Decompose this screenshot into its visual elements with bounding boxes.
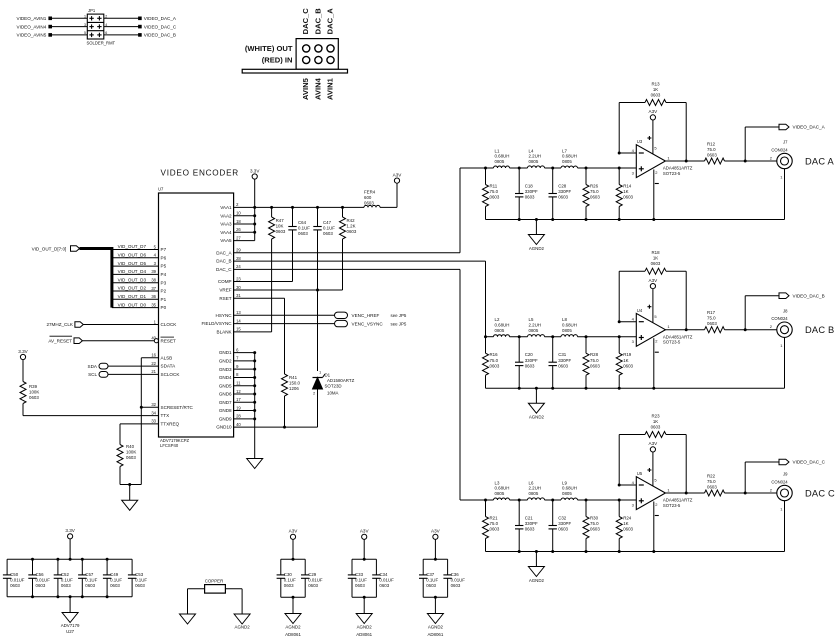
svg-text:P2: P2 xyxy=(161,289,167,294)
svg-text:A3V: A3V xyxy=(649,441,659,446)
svg-text:VID_OUT_D0: VID_OUT_D0 xyxy=(118,302,147,307)
svg-text:U3: U3 xyxy=(637,139,643,144)
svg-text:330PF: 330PF xyxy=(525,521,538,526)
svg-text:P7: P7 xyxy=(161,247,167,252)
svg-text:0603: 0603 xyxy=(590,527,600,532)
wire bus VID_OUT_D xyxy=(80,247,112,308)
svg-text:(WHITE) OUT: (WHITE) OUT xyxy=(245,44,293,53)
wire feedback loop U4 xyxy=(618,271,688,331)
resistor R13 1K feedback xyxy=(645,82,666,106)
svg-text:0.68UH: 0.68UH xyxy=(562,486,577,491)
ground AGND2 under C30 xyxy=(285,597,301,637)
capacitor C56 0.01UF xyxy=(28,559,50,597)
svg-text:COPPER: COPPER xyxy=(205,579,224,584)
svg-text:AD8061: AD8061 xyxy=(427,632,443,637)
wire pin 2 of U5 to rail xyxy=(654,502,659,552)
node VENC_VSYNC terminal xyxy=(335,320,407,326)
ground AGND2 DAC A xyxy=(528,220,544,252)
svg-text:0.01UF: 0.01UF xyxy=(308,577,323,582)
wire output row DAC B xyxy=(665,328,776,331)
wire to VIDEO_DAC_A terminal xyxy=(745,127,779,161)
svg-text:AGND2: AGND2 xyxy=(529,578,545,583)
svg-text:0603: 0603 xyxy=(558,195,568,200)
wire output row DAC A xyxy=(665,160,776,163)
svg-text:0805: 0805 xyxy=(495,159,505,164)
svg-text:28: 28 xyxy=(236,256,241,261)
power 3.3V at R39 xyxy=(20,354,25,359)
svg-text:1K: 1K xyxy=(623,189,628,194)
node VIDEO_DAC_A terminal xyxy=(779,124,826,130)
svg-text:C47: C47 xyxy=(323,220,332,225)
svg-text:0603: 0603 xyxy=(558,527,568,532)
power A3V above C30 xyxy=(290,534,295,539)
svg-text:C56: C56 xyxy=(36,572,45,577)
svg-text:SCLOCK: SCLOCK xyxy=(161,372,181,377)
wire jumper JP1 left and right leads xyxy=(51,17,87,19)
svg-text:0603: 0603 xyxy=(347,229,357,234)
svg-text:0603: 0603 xyxy=(379,583,389,588)
svg-text:0603: 0603 xyxy=(623,527,633,532)
capacitor C30 0.1UF xyxy=(277,559,296,597)
svg-text:R14: R14 xyxy=(623,184,632,189)
svg-text:27MHZ_CLK: 27MHZ_CLK xyxy=(46,322,73,327)
svg-text:R26: R26 xyxy=(590,184,599,189)
inductor L7 0.68UH xyxy=(561,148,578,168)
wire rails C37 C36 xyxy=(423,539,447,598)
svg-text:2.2UH: 2.2UH xyxy=(529,322,541,327)
svg-text:1K: 1K xyxy=(653,87,658,92)
connector J7 CON024 jack DAC A xyxy=(770,140,792,180)
svg-text:0805: 0805 xyxy=(529,328,539,333)
svg-text:ADA4851ARTZ: ADA4851ARTZ xyxy=(663,498,693,503)
svg-text:VAA4: VAA4 xyxy=(220,230,232,235)
wire filter line DAC B xyxy=(484,335,636,338)
svg-text:TTX: TTX xyxy=(161,413,170,418)
svg-text:AGND2: AGND2 xyxy=(357,625,373,630)
svg-text:0603: 0603 xyxy=(490,363,500,368)
power A3V above C37 xyxy=(433,534,438,539)
svg-text:330PF: 330PF xyxy=(558,189,571,194)
node SCL terminal xyxy=(88,372,108,378)
svg-text:SCRESET/RTC: SCRESET/RTC xyxy=(161,405,194,410)
svg-text:R19: R19 xyxy=(623,352,632,357)
svg-text:VAA5: VAA5 xyxy=(220,238,232,243)
diode D1 AD1580ARTZ xyxy=(313,370,355,428)
svg-text:75.0: 75.0 xyxy=(490,521,499,526)
svg-text:31: 31 xyxy=(236,293,241,298)
svg-text:JP1: JP1 xyxy=(88,8,96,13)
svg-text:0603: 0603 xyxy=(284,583,294,588)
svg-text:R40: R40 xyxy=(126,444,135,449)
svg-text:5: 5 xyxy=(84,31,86,35)
svg-text:16: 16 xyxy=(151,353,156,358)
svg-text:VIDEO_DAC_C: VIDEO_DAC_C xyxy=(793,460,826,465)
svg-text:75.0: 75.0 xyxy=(490,358,499,363)
svg-text:LFCSP40: LFCSP40 xyxy=(160,443,179,448)
svg-text:CON024: CON024 xyxy=(771,479,788,484)
svg-text:0.1UF: 0.1UF xyxy=(426,577,438,582)
svg-text:TTXREQ: TTXREQ xyxy=(161,422,180,427)
capacitor C64 0.1UF xyxy=(288,207,310,240)
resistor R21 75.0 xyxy=(483,500,500,552)
svg-text:0603: 0603 xyxy=(623,195,633,200)
svg-text:C28: C28 xyxy=(558,184,567,189)
svg-text:U4: U4 xyxy=(637,308,643,313)
capacitor C50 0.01UF xyxy=(3,559,25,597)
svg-text:2.2UH: 2.2UH xyxy=(529,486,541,491)
resistor R23 1K feedback xyxy=(645,414,666,438)
svg-text:P1: P1 xyxy=(161,297,167,302)
svg-text:A3V: A3V xyxy=(649,109,659,114)
svg-text:L1: L1 xyxy=(495,148,500,153)
svg-text:VIDEO_AVIN5: VIDEO_AVIN5 xyxy=(17,33,47,38)
svg-text:SOT23-5: SOT23-5 xyxy=(663,503,681,508)
svg-text:C49: C49 xyxy=(110,572,119,577)
svg-text:A3V: A3V xyxy=(431,529,441,534)
svg-text:0.01UF: 0.01UF xyxy=(10,577,25,582)
resistor R14 1K xyxy=(616,168,633,220)
svg-text:75.0: 75.0 xyxy=(590,189,599,194)
power 3.3V bypass bank xyxy=(68,534,73,539)
svg-text:0603: 0603 xyxy=(426,583,436,588)
svg-text:C53: C53 xyxy=(135,572,144,577)
resistor R19 1K xyxy=(616,337,633,389)
svg-text:36: 36 xyxy=(151,294,156,299)
node AV_RESET terminal xyxy=(48,336,82,343)
svg-text:L7: L7 xyxy=(562,148,567,153)
ground AGND2 DAC B xyxy=(528,388,544,420)
svg-text:0.68UH: 0.68UH xyxy=(495,322,510,327)
svg-text:AVIN1: AVIN1 xyxy=(325,77,334,100)
jumper JP1 xyxy=(84,8,116,45)
wire C64 to COMP xyxy=(234,240,293,282)
node VIDEO_DAC_B terminal xyxy=(779,293,825,299)
wire VAA pins to rail xyxy=(234,206,257,241)
svg-text:330PF: 330PF xyxy=(558,358,571,363)
svg-text:SOT23-5: SOT23-5 xyxy=(663,340,681,345)
svg-text:0.01UF: 0.01UF xyxy=(36,577,51,582)
svg-text:U27: U27 xyxy=(66,629,75,634)
svg-text:0.68UH: 0.68UH xyxy=(562,322,577,327)
svg-text:GND2: GND2 xyxy=(219,358,232,363)
svg-text:0603: 0603 xyxy=(126,455,136,460)
capacitor C36 0.01UF xyxy=(443,559,465,597)
svg-text:R28: R28 xyxy=(590,352,599,357)
svg-text:AVIN5: AVIN5 xyxy=(301,77,310,100)
svg-text:75.0: 75.0 xyxy=(490,189,499,194)
svg-text:75.0: 75.0 xyxy=(707,147,716,152)
svg-text:J9: J9 xyxy=(783,472,788,477)
svg-text:R11: R11 xyxy=(490,184,498,189)
wire pin 2 of U3 to rail xyxy=(654,170,659,220)
wire to VIDEO_DAC_C terminal xyxy=(745,462,779,493)
svg-text:P4: P4 xyxy=(161,272,167,277)
capacitor C32 330PF xyxy=(549,500,572,552)
resistor R42 1.2K xyxy=(340,207,357,239)
svg-text:AGND2: AGND2 xyxy=(529,415,545,420)
svg-text:GND3: GND3 xyxy=(219,367,232,372)
svg-text:P0: P0 xyxy=(161,305,167,310)
svg-text:1K: 1K xyxy=(653,419,658,424)
capacitor C57 0.1UF xyxy=(78,559,97,597)
svg-text:AD8061: AD8061 xyxy=(356,632,372,637)
power A3V right of FER4 xyxy=(394,178,399,183)
svg-text:40: 40 xyxy=(236,422,241,427)
wire 3.3V to VAA rail xyxy=(255,179,397,209)
svg-text:GND10: GND10 xyxy=(216,425,232,430)
svg-text:27: 27 xyxy=(236,235,241,240)
resistor R16 75.0 xyxy=(483,337,500,389)
svg-text:L4: L4 xyxy=(529,148,534,153)
ground left of copper link xyxy=(180,614,196,624)
svg-text:AD1580ARTZ: AD1580ARTZ xyxy=(327,378,355,383)
svg-text:100K: 100K xyxy=(29,390,39,395)
svg-text:0603: 0603 xyxy=(135,583,145,588)
node VIDEO_DAC right terminals xyxy=(138,16,177,38)
svg-text:AGND2: AGND2 xyxy=(529,246,545,251)
connector J1 audio jack block xyxy=(245,39,338,70)
resistor R40 100K xyxy=(117,443,136,485)
svg-text:L6: L6 xyxy=(529,480,534,485)
wire HSYNC to VENC_HREF xyxy=(234,314,335,316)
svg-text:1K: 1K xyxy=(623,358,628,363)
svg-text:AD8061: AD8061 xyxy=(285,632,301,637)
svg-text:R18: R18 xyxy=(651,250,660,255)
svg-text:30: 30 xyxy=(236,285,241,290)
svg-text:VID_OUT_D6: VID_OUT_D6 xyxy=(118,253,147,258)
svg-text:24: 24 xyxy=(236,264,241,269)
svg-text:C52: C52 xyxy=(61,572,70,577)
svg-text:R13: R13 xyxy=(651,82,660,87)
svg-text:VENC_HREF: VENC_HREF xyxy=(352,313,380,318)
wire bottom rail DAC B xyxy=(486,387,785,390)
inductor L1 0.68UH xyxy=(494,148,510,168)
wire AV_RESET to RESET pin with bubble xyxy=(82,339,158,343)
pin names U7 left side xyxy=(151,244,193,426)
resistor R18 1K feedback xyxy=(645,250,666,274)
svg-text:VID_OUT_D3: VID_OUT_D3 xyxy=(118,277,147,282)
power A3V op-amp U5 xyxy=(650,447,655,452)
svg-text:VENC_VSYNC: VENC_VSYNC xyxy=(352,321,384,326)
node VID_OUT_D[7:0] bus terminal xyxy=(32,246,80,252)
svg-text:C33: C33 xyxy=(355,572,364,577)
wire GND pins to ground rail xyxy=(234,351,318,458)
svg-text:100K: 100K xyxy=(126,450,136,455)
svg-text:10MA: 10MA xyxy=(327,391,339,396)
svg-text:0.01UF: 0.01UF xyxy=(379,577,394,582)
capacitor C33 0.1UF xyxy=(348,559,367,597)
svg-text:VIDEO_AVIN4: VIDEO_AVIN4 xyxy=(17,24,47,29)
svg-text:HSYNC: HSYNC xyxy=(216,313,233,318)
svg-text:R21: R21 xyxy=(490,516,499,521)
svg-text:C30: C30 xyxy=(284,572,293,577)
ground AGND2 under C33 xyxy=(356,597,372,637)
svg-text:6: 6 xyxy=(105,31,107,35)
wire bottom rail DAC C xyxy=(486,550,785,553)
svg-text:C29: C29 xyxy=(308,572,317,577)
op-amp U7 video encoder ADV7179 body xyxy=(158,187,234,448)
ground AGND2 DAC C xyxy=(528,552,544,584)
svg-text:0.68UH: 0.68UH xyxy=(495,486,510,491)
svg-text:DAC A: DAC A xyxy=(805,156,834,166)
svg-text:0.1UF: 0.1UF xyxy=(355,577,367,582)
resistor R26 75.0 xyxy=(583,168,600,220)
svg-text:VIDEO_DAC_B: VIDEO_DAC_B xyxy=(144,33,176,38)
svg-text:0603: 0603 xyxy=(651,424,661,429)
svg-text:CON024: CON024 xyxy=(771,316,788,321)
svg-text:VIDEO ENCODER: VIDEO ENCODER xyxy=(161,169,239,178)
svg-text:R39: R39 xyxy=(29,384,38,389)
svg-text:21: 21 xyxy=(151,369,156,374)
wire RSET to R41 xyxy=(234,298,285,374)
svg-text:U7: U7 xyxy=(158,187,164,192)
svg-text:10K: 10K xyxy=(276,224,284,229)
svg-text:C57: C57 xyxy=(85,572,94,577)
svg-text:330PF: 330PF xyxy=(525,358,538,363)
svg-text:1: 1 xyxy=(84,15,86,19)
svg-text:0.1UF: 0.1UF xyxy=(284,577,296,582)
resistor R11 75.0 xyxy=(483,168,500,220)
svg-text:37: 37 xyxy=(151,286,156,291)
svg-text:75.0: 75.0 xyxy=(707,316,716,321)
svg-text:ADA4851ARTZ: ADA4851ARTZ xyxy=(663,166,693,171)
node VENC_HREF terminal xyxy=(335,312,407,318)
svg-text:C32: C32 xyxy=(558,516,567,521)
svg-text:ALSB: ALSB xyxy=(161,355,173,360)
svg-text:4: 4 xyxy=(105,23,107,27)
svg-text:R22: R22 xyxy=(707,474,716,479)
svg-text:VIDEO_DAC_A: VIDEO_DAC_A xyxy=(793,125,826,130)
wire SCL to SCLOCK xyxy=(108,373,159,375)
svg-text:0805: 0805 xyxy=(495,491,505,496)
wire rails C30 C29 xyxy=(281,539,305,598)
svg-text:2.2UH: 2.2UH xyxy=(529,154,541,159)
wire jack ground DAC A xyxy=(784,169,786,220)
svg-text:DAC C: DAC C xyxy=(805,488,835,498)
resistor R24 1K xyxy=(616,500,633,552)
capacitor C53 0.1UF xyxy=(128,559,147,597)
wire DAC_B net to filter B xyxy=(234,261,486,337)
inductor L4 2.2UH xyxy=(528,148,545,168)
power A3V above C33 xyxy=(362,534,367,539)
svg-text:39: 39 xyxy=(151,269,156,274)
op-amp U3 ADA4851ARTZ xyxy=(632,139,693,178)
connector J9 CON024 jack DAC C xyxy=(770,472,792,512)
wire R47 to BLANK xyxy=(234,239,272,332)
svg-text:75.0: 75.0 xyxy=(707,479,716,484)
svg-text:0603: 0603 xyxy=(707,152,717,157)
svg-text:SCL: SCL xyxy=(88,372,97,377)
svg-text:A3V: A3V xyxy=(360,529,370,534)
svg-text:19: 19 xyxy=(236,405,241,410)
inductor L3 0.68UH xyxy=(494,480,510,500)
svg-text:0805: 0805 xyxy=(495,328,505,333)
svg-text:A3V: A3V xyxy=(649,278,659,283)
capacitor C34 0.01UF xyxy=(372,559,394,597)
op-amp U4 ADA4851ARTZ xyxy=(632,308,693,347)
svg-text:R17: R17 xyxy=(707,310,716,315)
svg-text:0603: 0603 xyxy=(61,583,71,588)
svg-text:P5: P5 xyxy=(161,264,167,269)
svg-text:3.3V: 3.3V xyxy=(18,349,28,354)
svg-text:0805: 0805 xyxy=(562,328,572,333)
wire bypass bank rails xyxy=(7,539,132,598)
resistor R17 75.0 series output xyxy=(705,310,725,333)
svg-text:VID_OUT_D4: VID_OUT_D4 xyxy=(118,269,147,274)
svg-text:DAC_C: DAC_C xyxy=(216,267,232,272)
svg-text:SOT23-5: SOT23-5 xyxy=(663,171,681,176)
wire bottom rail DAC A xyxy=(486,218,785,221)
svg-text:0.1UF: 0.1UF xyxy=(323,226,335,231)
svg-text:0805: 0805 xyxy=(562,491,572,496)
svg-text:VREF: VREF xyxy=(219,288,231,293)
resistor COPPER link xyxy=(205,579,226,594)
svg-text:26: 26 xyxy=(236,227,241,232)
svg-text:L2: L2 xyxy=(495,317,500,322)
svg-text:A3V: A3V xyxy=(393,172,403,177)
svg-text:FER4: FER4 xyxy=(364,190,376,195)
resistor R47 10K xyxy=(269,207,286,239)
wire to VIDEO_DAC_B terminal xyxy=(745,296,779,330)
wire jack ground DAC C xyxy=(784,501,786,552)
wire SDA to SDATA xyxy=(108,365,159,367)
wire VID_OUT_D branch wires to P7-P0 xyxy=(112,250,159,308)
svg-text:0603: 0603 xyxy=(490,195,500,200)
capacitor C52 0.1UF xyxy=(54,559,73,597)
svg-text:L9: L9 xyxy=(562,480,567,485)
svg-text:3.3V: 3.3V xyxy=(250,168,260,173)
svg-text:COMP: COMP xyxy=(218,279,232,284)
svg-text:GND9: GND9 xyxy=(219,416,232,421)
svg-text:VAA3: VAA3 xyxy=(220,222,232,227)
svg-text:AGND2: AGND2 xyxy=(285,625,301,630)
svg-text:C18: C18 xyxy=(525,184,534,189)
svg-text:0.1UF: 0.1UF xyxy=(110,577,122,582)
svg-text:see JP5: see JP5 xyxy=(391,313,407,318)
wire TTXREQ to R40 xyxy=(120,424,159,443)
svg-text:GND8: GND8 xyxy=(219,408,232,413)
svg-text:0603: 0603 xyxy=(308,583,318,588)
svg-text:VIDEO_AVIN1: VIDEO_AVIN1 xyxy=(17,16,47,21)
svg-text:0.1UF: 0.1UF xyxy=(298,226,310,231)
resistor R39 100K xyxy=(20,360,39,416)
wire feedback loop U3 xyxy=(618,103,688,163)
svg-text:VAA2: VAA2 xyxy=(220,213,232,218)
svg-text:0603: 0603 xyxy=(590,363,600,368)
svg-text:0603: 0603 xyxy=(364,200,374,205)
wire C47 to VREF and D1 xyxy=(316,240,319,371)
svg-text:1206: 1206 xyxy=(289,386,299,391)
svg-text:DAC_B: DAC_B xyxy=(313,8,322,35)
svg-text:28: 28 xyxy=(236,414,241,419)
svg-text:VID_OUT_D2: VID_OUT_D2 xyxy=(118,286,147,291)
ground ADV7179 U27 xyxy=(61,597,80,634)
resistor R28 75.0 xyxy=(583,337,600,389)
svg-text:11: 11 xyxy=(236,381,241,386)
svg-text:AGND2: AGND2 xyxy=(428,625,444,630)
svg-text:0603: 0603 xyxy=(298,231,308,236)
svg-text:0805: 0805 xyxy=(562,159,572,164)
svg-text:75.0: 75.0 xyxy=(590,521,599,526)
svg-text:0.68UH: 0.68UH xyxy=(562,154,577,159)
svg-text:VID_OUT_D7: VID_OUT_D7 xyxy=(118,244,147,249)
svg-text:0805: 0805 xyxy=(529,159,539,164)
svg-text:L3: L3 xyxy=(495,480,500,485)
svg-text:32: 32 xyxy=(151,402,156,407)
svg-text:23: 23 xyxy=(236,276,241,281)
svg-text:C20: C20 xyxy=(525,352,534,357)
svg-text:VIDEO_DAC_A: VIDEO_DAC_A xyxy=(144,16,177,21)
